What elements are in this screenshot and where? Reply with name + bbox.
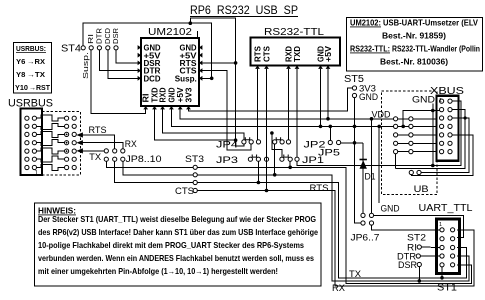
wire TXD rail (155, 106, 236, 140)
wire XBUS wrap2 (396, 110, 466, 169)
svg-text:Y8: Y8 (16, 70, 25, 79)
svg-text:Susp.: Susp. (81, 52, 90, 79)
wire XBUS breakout row7 drop (395, 154, 397, 169)
svg-text:CTS: CTS (175, 186, 194, 196)
svg-text:TXD: TXD (293, 46, 302, 62)
wire DSR (116, 50, 140, 63)
jumper JP5 (328, 140, 332, 144)
wire RS232 GND drop (320, 69, 322, 127)
svg-text:Y6: Y6 (16, 57, 25, 66)
HINWEIS note box (35, 203, 322, 286)
wire RXD rail to JP4-1 (163, 106, 244, 140)
svg-text:UM2102:: UM2102: (350, 18, 381, 28)
IC RS232-TTL body (251, 38, 341, 66)
jumper JP6..7 (361, 213, 365, 217)
wire RX arrow (76, 140, 83, 145)
wire DSR wrap (418, 267, 420, 281)
wire TX arrow (76, 148, 83, 153)
XBUS breakout dashed box (382, 91, 438, 195)
svg-text:3V3: 3V3 (185, 87, 194, 103)
UB circles (409, 170, 413, 174)
diode D1 (362, 143, 364, 213)
svg-text:→RX: →RX (27, 57, 45, 66)
svg-text:GND: GND (167, 87, 176, 102)
wire UM RTS to JP4-1 (201, 63, 244, 146)
wire RTS arrow (76, 132, 83, 137)
wire DCD (108, 50, 140, 78)
wire GND riser to row2 (403, 111, 439, 127)
wire UM CTS to JP4-2 (201, 71, 252, 150)
wire ST1 row5 to TX line (441, 267, 443, 278)
XBUS left breakout circles (394, 117, 398, 121)
wire JP1-3 to XBUS pin1 (297, 101, 461, 165)
wire rail ST3-2 RX (197, 175, 469, 281)
svg-text:RI: RI (142, 94, 151, 103)
wire +5V VDD rail (180, 106, 393, 119)
wire JP8-10 pin2 to ST3-3 (115, 161, 193, 182)
svg-text:JP8..10: JP8..10 (126, 154, 162, 164)
wire JP7 top to UART wrap (374, 215, 464, 237)
svg-text:GND: GND (359, 92, 378, 102)
wire JP7 bottom to UART pin1 (372, 225, 440, 230)
wire JP1-1 feed (272, 133, 282, 157)
svg-text:CTS: CTS (263, 46, 272, 62)
wire ST5 GND drop to JP6 (355, 98, 361, 223)
svg-text:ST1: ST1 (437, 282, 457, 294)
wire RS232 TXD drop to JP1-3 (296, 69, 298, 157)
svg-text:D1: D1 (365, 172, 376, 183)
wires XBUS row links (398, 118, 409, 120)
svg-text:ST3: ST3 (185, 154, 204, 165)
svg-text:TX: TX (89, 152, 101, 162)
svg-text:+5V: +5V (324, 45, 333, 62)
svg-text:Y10: Y10 (15, 83, 28, 92)
svg-text:JP5: JP5 (318, 148, 340, 159)
wire GND drop to label (378, 126, 380, 203)
wire GND rail (171, 106, 393, 126)
op-amp U1 UM2102 body (141, 38, 199, 106)
svg-text:DSR: DSR (111, 27, 120, 44)
svg-text:1: 1 (439, 222, 442, 228)
svg-text:10-polige Flachkabel direkt mi: 10-polige Flachkabel direkt mit dem PROG… (38, 240, 304, 250)
svg-text:Susp.: Susp. (175, 74, 197, 83)
svg-text:des RP6(v2) USB Interface! Dah: des RP6(v2) USB Interface! Daher kann ST… (38, 227, 318, 237)
wire 3V3 rail (189, 88, 353, 111)
svg-text:RX: RX (125, 139, 137, 149)
svg-text:TX: TX (349, 269, 361, 279)
wire DTR to ST1 (420, 255, 440, 257)
connector XBUS header (437, 96, 459, 161)
wire JP1-2 drop (289, 161, 291, 167)
wire XBUS wrap3 UB (421, 118, 469, 173)
connector UART_TTL ST1 header (437, 219, 460, 274)
svg-text:mit einer umgekehrten Pin-Abfo: mit einer umgekehrten Pin-Abfolge (1→10,… (38, 266, 278, 276)
connector USRBUS header (21, 109, 43, 176)
svg-text:→TX: →TX (27, 70, 45, 79)
wire JP4 label vert pass (257, 161, 259, 182)
svg-text:GND: GND (381, 204, 400, 214)
svg-text:JP6..7: JP6..7 (351, 233, 380, 244)
info box UM2102 / RS232-TTL sources (347, 18, 483, 72)
wire Susp net (83, 23, 212, 78)
svg-text:RP6 RS232 USB SP: RP6 RS232 USB SP (190, 5, 298, 17)
svg-text:RS232-TTL: RS232-TTL (264, 26, 324, 38)
wires USRBUS zigzag (37, 115, 65, 121)
wire JP5-2 to D1 (341, 142, 364, 144)
svg-text:UART_TTL: UART_TTL (419, 202, 473, 214)
svg-text:verbunden werden. Wenn ein AND: verbunden werden. Wenn ein ANDERES Flach… (38, 253, 314, 263)
svg-text:JP3: JP3 (216, 155, 238, 166)
svg-text:1: 1 (439, 98, 442, 104)
wire JP8-10 pin1 to ST3-1 (106, 161, 193, 167)
jumper JP8..10 (104, 149, 108, 153)
UM2102 top pin stub (197, 31, 199, 38)
svg-text:Best.-Nr. 810036): Best.-Nr. 810036) (380, 57, 448, 67)
svg-text:→RST: →RST (29, 83, 50, 92)
svg-text:RS232-TTL:: RS232-TTL: (350, 44, 390, 54)
svg-text:RX: RX (332, 283, 345, 293)
wire GND label drop XBUS (432, 104, 434, 166)
wire rail ST3-1 (197, 167, 471, 283)
wire +5V branch to JP7 top (371, 119, 373, 213)
svg-text:UB: UB (414, 184, 429, 195)
wire top branch to JP4 (190, 18, 235, 63)
svg-text:RTS: RTS (89, 125, 107, 135)
wire RS232 +5V drop (327, 69, 329, 119)
wire RI (91, 50, 146, 114)
wire RI to ST1 (421, 246, 440, 249)
svg-text:Best.-Nr. 91859): Best.-Nr. 91859) (382, 31, 446, 41)
wire RS232 CTS drop to JP3-3 and CTS rail (266, 69, 268, 191)
svg-text:DCD: DCD (144, 74, 161, 83)
wire XBUS wrap5 (411, 135, 473, 176)
svg-text:DSR: DSR (398, 260, 417, 270)
svg-text:UM2102: UM2102 (148, 26, 192, 38)
svg-text:RS232-TTL-Wandler (Pollin: RS232-TTL-Wandler (Pollin (392, 44, 480, 54)
svg-text:RTS: RTS (310, 183, 329, 193)
svg-text:ST4: ST4 (61, 44, 81, 55)
USRBUS breakout dashed box (42, 112, 81, 175)
svg-text:Der Stecker ST1 (UART_TTL) wei: Der Stecker ST1 (UART_TTL) weist dieselb… (38, 214, 316, 224)
wire JP8-10 pin3 to ST3-2 (123, 161, 193, 174)
svg-text:RTS: RTS (254, 46, 263, 62)
svg-text:USRBUS:: USRBUS: (16, 44, 46, 53)
wire JP2-1 drop (274, 144, 276, 175)
wire rail CTS (197, 191, 474, 286)
wire JP5-1 riser to GND rail (329, 126, 331, 140)
wire RS232 RXD drop to JP2-3 (288, 69, 290, 140)
wire rail ST3-3 TX (197, 183, 466, 278)
wire DTR (99, 50, 139, 71)
USRBUS legend box (14, 43, 52, 94)
wire RS232 RTS drop to JP4-3 (257, 69, 259, 140)
svg-text:USB-UART-Umsetzer (ELV: USB-UART-Umsetzer (ELV (383, 18, 478, 28)
svg-text:JP4: JP4 (216, 140, 238, 151)
svg-text:RXD: RXD (159, 87, 168, 102)
